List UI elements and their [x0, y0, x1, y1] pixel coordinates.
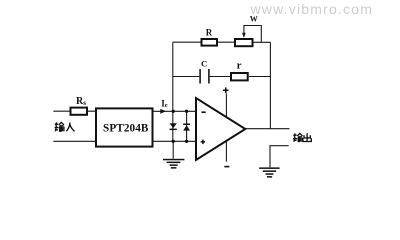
- svg-text:Rs: Rs: [76, 96, 86, 107]
- svg-text:R: R: [206, 27, 213, 37]
- svg-text:W: W: [250, 15, 258, 24]
- svg-text:Ie: Ie: [161, 99, 168, 109]
- svg-text:C: C: [201, 59, 207, 69]
- svg-text:r: r: [237, 60, 242, 72]
- svg-text:www.vibmro.com: www.vibmro.com: [250, 1, 374, 17]
- svg-text:SPT204B: SPT204B: [103, 123, 149, 135]
